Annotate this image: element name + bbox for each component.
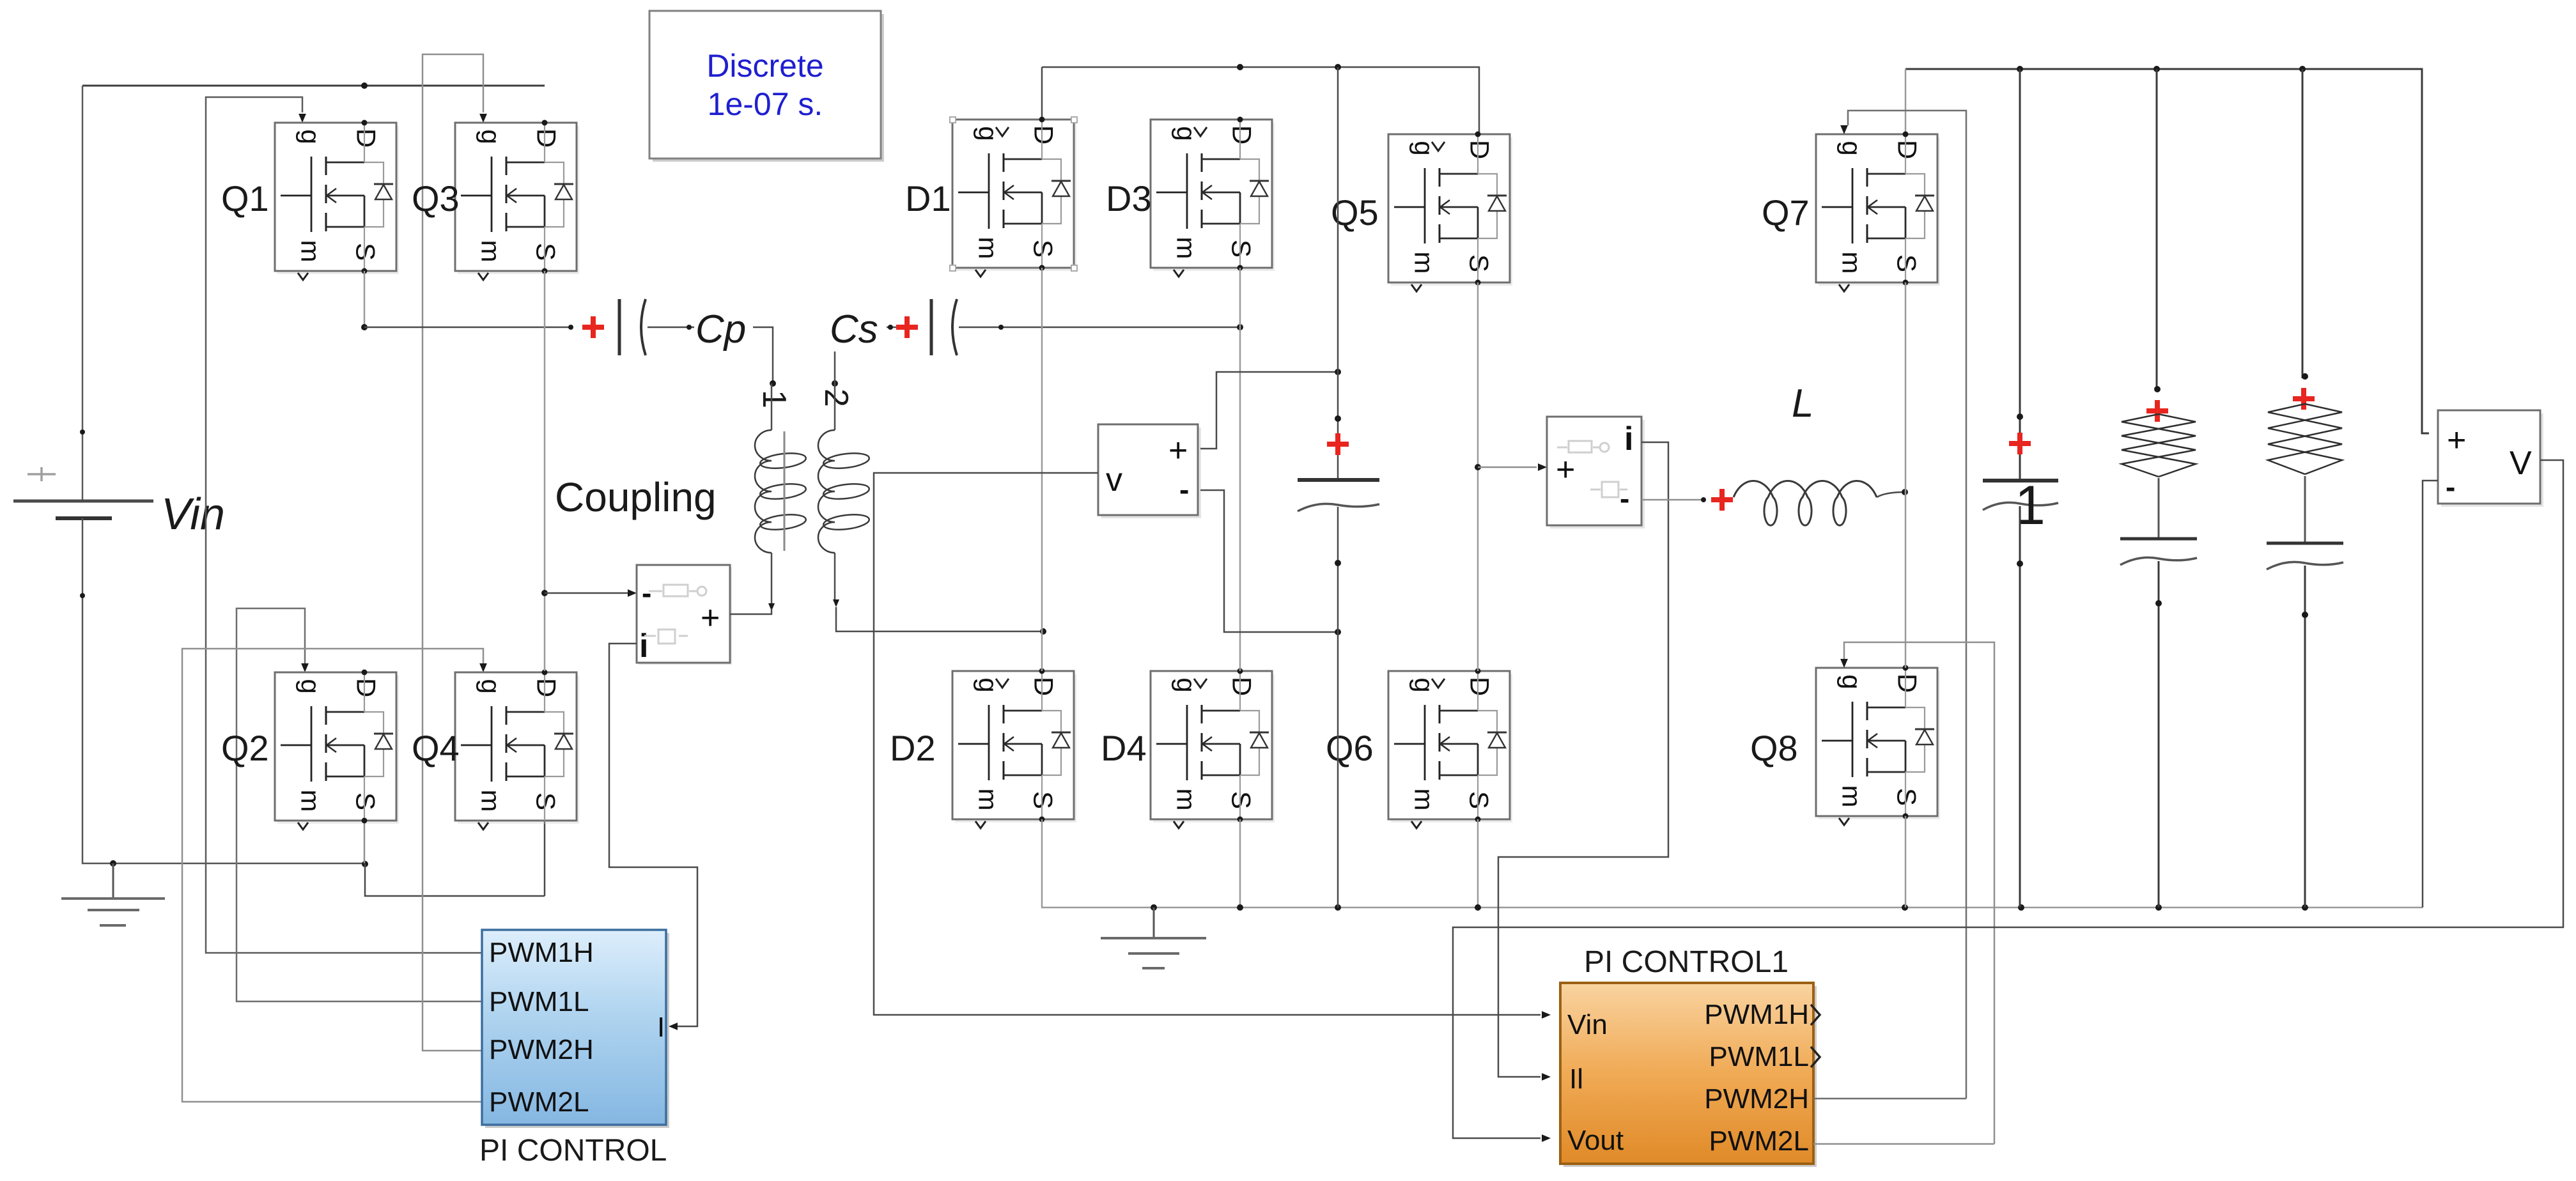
inductor L bbox=[1711, 489, 1733, 511]
svg-text:m: m bbox=[1172, 237, 1202, 259]
svg-text:PWM2L: PWM2L bbox=[1709, 1125, 1809, 1157]
svg-text:g: g bbox=[1409, 677, 1439, 692]
svg-text:i: i bbox=[639, 628, 648, 665]
svg-text:Q8: Q8 bbox=[1750, 728, 1798, 768]
port PWM1L unconnected bbox=[1811, 1047, 1820, 1067]
svg-text:Q4: Q4 bbox=[412, 728, 460, 768]
svg-text:+: + bbox=[1168, 432, 1188, 469]
svg-text:S: S bbox=[1227, 240, 1257, 258]
svg-text:D: D bbox=[352, 678, 382, 697]
node ground1 junction bbox=[110, 860, 116, 867]
svg-text:g: g bbox=[1837, 141, 1867, 155]
svg-text:S: S bbox=[1464, 791, 1494, 809]
svg-text:g: g bbox=[296, 129, 326, 144]
wire PWM1H to Q1 gate bbox=[206, 97, 482, 953]
wire Q1 source to node A bbox=[364, 271, 366, 327]
svg-text:S: S bbox=[531, 792, 561, 810]
wire PWM1L to Q2 gate bbox=[237, 608, 482, 1001]
transistor Q3 bbox=[455, 123, 579, 280]
node D3 drain junction bbox=[1237, 64, 1243, 70]
wire node B to i2 minus bbox=[545, 592, 628, 594]
svg-text:v: v bbox=[1106, 461, 1122, 498]
svg-text:Coupling: Coupling bbox=[555, 474, 717, 520]
svg-text:S: S bbox=[531, 243, 561, 261]
svg-text:D: D bbox=[1029, 677, 1059, 696]
svg-text:Vin: Vin bbox=[1567, 1009, 1608, 1040]
svg-text:g: g bbox=[1409, 141, 1439, 155]
transistor D1 bbox=[950, 117, 1077, 277]
svg-text:m: m bbox=[1837, 785, 1867, 808]
wire C1 column bottom bbox=[1337, 507, 1339, 907]
svg-text:1e-07 s.: 1e-07 s. bbox=[708, 86, 823, 122]
wire PWM2L to Q8 gate bbox=[1844, 642, 1994, 1144]
capacitor Cs series branch bbox=[896, 316, 918, 338]
current measurement i2 bbox=[637, 565, 732, 665]
node Q1 drain junction bbox=[361, 82, 368, 89]
svg-text:D: D bbox=[1465, 140, 1495, 159]
wire terminal2 to Cs bbox=[835, 327, 907, 383]
wire Q8 source to rail bbox=[1905, 816, 1907, 907]
wire Q5 Q6 midpoint to i1 plus bbox=[1478, 467, 1537, 468]
svg-text:Il: Il bbox=[1569, 1063, 1583, 1095]
svg-text:L: L bbox=[1792, 382, 1813, 426]
transistor D3 bbox=[1151, 120, 1275, 277]
svg-text:S: S bbox=[351, 243, 381, 261]
wire node B Q3 source to Q4 drain bbox=[544, 271, 546, 671]
svg-text:+: + bbox=[701, 599, 720, 637]
svg-text:+: + bbox=[1556, 451, 1575, 488]
svg-text:D: D bbox=[1465, 677, 1495, 696]
svg-text:D2: D2 bbox=[890, 728, 936, 768]
transistor Q5 bbox=[1388, 134, 1512, 291]
capacitor Cp series branch bbox=[582, 316, 604, 338]
svg-text:I: I bbox=[657, 1012, 665, 1043]
node R1 top bbox=[2153, 66, 2160, 72]
svg-text:-: - bbox=[1620, 482, 1629, 515]
wire i1 minus to L bbox=[1641, 499, 1703, 501]
svg-text:Vin: Vin bbox=[161, 489, 225, 539]
svg-text:m: m bbox=[296, 790, 326, 812]
svg-text:PWM2L: PWM2L bbox=[489, 1086, 589, 1118]
wire secondary top rail bbox=[1042, 67, 1479, 134]
svg-text:-: - bbox=[2446, 470, 2455, 504]
node cap right top bbox=[2017, 66, 2023, 72]
svg-text:m: m bbox=[1837, 252, 1867, 274]
resistor R load branch 2 bbox=[2302, 69, 2304, 378]
node C1 top junction bbox=[1335, 64, 1341, 70]
wire node A to Cp bbox=[364, 327, 571, 328]
svg-text:g: g bbox=[974, 126, 1004, 141]
svg-text:m: m bbox=[1409, 252, 1439, 274]
svg-text:g: g bbox=[1172, 126, 1202, 141]
capacitor C1 output bbox=[1335, 415, 1341, 422]
svg-text:PWM1H: PWM1H bbox=[1704, 999, 1809, 1030]
svg-text:-: - bbox=[642, 576, 651, 610]
node Q2 source junction bbox=[362, 861, 368, 867]
wire primary top rail bbox=[82, 85, 545, 87]
ground secondary bbox=[1153, 907, 1155, 938]
subsystem PI CONTROL1 bbox=[1560, 983, 1817, 1167]
wire i2 signal to PI CONTROL I input bbox=[609, 644, 697, 1026]
transformer core bbox=[784, 431, 786, 551]
svg-text:S: S bbox=[1028, 791, 1059, 809]
resistor R load branch 1 bbox=[2156, 69, 2158, 391]
wire battery positive bbox=[82, 86, 84, 501]
svg-text:D: D bbox=[1029, 125, 1059, 144]
svg-text:Cs: Cs bbox=[830, 307, 878, 351]
wire C1 column top bbox=[1337, 67, 1339, 480]
svg-text:S: S bbox=[1892, 254, 1922, 272]
svg-text:PWM1L: PWM1L bbox=[489, 986, 589, 1017]
subsystem PI CONTROL bbox=[482, 930, 669, 1128]
svg-text:S: S bbox=[1892, 788, 1922, 806]
current measurement i1 bbox=[1547, 417, 1645, 529]
svg-text:g: g bbox=[974, 677, 1004, 692]
svg-text:S: S bbox=[1028, 240, 1059, 258]
svg-text:PWM2H: PWM2H bbox=[1704, 1083, 1809, 1115]
transistor D4 bbox=[1151, 671, 1275, 828]
wire v1 minus to C1 bottom bbox=[1200, 490, 1338, 632]
svg-text:PI CONTROL: PI CONTROL bbox=[479, 1134, 667, 1168]
svg-text:D: D bbox=[1227, 125, 1257, 144]
svg-text:V: V bbox=[2510, 445, 2532, 482]
svg-text:g: g bbox=[476, 679, 506, 693]
ground bbox=[113, 863, 114, 899]
wire i2 plus to winding1 bottom bbox=[730, 608, 772, 614]
svg-text:-: - bbox=[1179, 473, 1189, 506]
svg-text:D: D bbox=[352, 128, 382, 148]
node R2 top bbox=[2299, 66, 2306, 72]
wire cap1 column bbox=[2019, 69, 2021, 481]
block Discrete solver bbox=[649, 11, 884, 162]
svg-text:+: + bbox=[2447, 422, 2466, 459]
svg-text:Cp: Cp bbox=[695, 307, 746, 351]
voltage measurement v2 bbox=[2438, 410, 2543, 507]
svg-text:PWM1L: PWM1L bbox=[1709, 1041, 1809, 1072]
wire Q5 source to Q6 drain bbox=[1477, 282, 1479, 671]
node Q5 Q6 midpoint to i1 bbox=[1475, 464, 1481, 470]
node B junction bbox=[541, 590, 548, 596]
node A bridge midpoint left bbox=[361, 324, 368, 330]
wire PWM2H to Q7 gate bbox=[1848, 111, 1966, 1099]
svg-text:m: m bbox=[476, 790, 506, 812]
svg-text:g: g bbox=[476, 129, 506, 144]
svg-text:S: S bbox=[1464, 254, 1494, 272]
svg-text:g: g bbox=[296, 679, 326, 693]
transistor Q7 bbox=[1816, 134, 1940, 291]
svg-text:PI CONTROL1: PI CONTROL1 bbox=[1584, 945, 1788, 979]
wire output top rail bbox=[1905, 69, 2429, 433]
svg-text:i: i bbox=[1624, 421, 1633, 458]
svg-text:2: 2 bbox=[818, 389, 855, 407]
svg-text:D: D bbox=[1893, 674, 1923, 693]
svg-text:Q2: Q2 bbox=[221, 728, 269, 768]
wire Q2 source to rail bbox=[364, 821, 366, 863]
svg-text:m: m bbox=[974, 789, 1004, 811]
svg-text:g: g bbox=[1837, 674, 1867, 689]
voltage measurement v1 bbox=[1098, 424, 1201, 518]
wire D1 source to D2 drain bbox=[1041, 268, 1043, 671]
wire D3 source to D4 drain bbox=[1239, 268, 1241, 671]
svg-text:m: m bbox=[1409, 789, 1439, 811]
wire PWM2H to Q3 gate bbox=[423, 54, 483, 1051]
capacitor 1 battery branch bbox=[2017, 413, 2023, 420]
svg-text:m: m bbox=[296, 240, 326, 263]
svg-text:D4: D4 bbox=[1101, 728, 1147, 768]
wire Q7 source to Q8 drain bbox=[1905, 282, 1907, 668]
svg-text:S: S bbox=[1227, 791, 1257, 809]
wire L to Q7 Q8 midpoint bbox=[1877, 492, 1905, 497]
wire secondary ground rail bbox=[1042, 819, 2423, 907]
wire v1 plus to C1 top bbox=[1200, 372, 1338, 449]
wire v2 signal to PI CONTROL1 Vout bbox=[1453, 460, 2563, 1138]
svg-text:m: m bbox=[974, 237, 1004, 259]
svg-text:S: S bbox=[351, 792, 381, 810]
svg-text:D: D bbox=[532, 678, 562, 697]
wire v1 signal to PI CONTROL1 Vin bbox=[874, 473, 1540, 1015]
transistor Q8 bbox=[1816, 668, 1940, 825]
wire Q4 source return bbox=[365, 821, 545, 896]
wire i1 signal to PI CONTROL1 Il bbox=[1498, 442, 1668, 1077]
svg-text:Discrete: Discrete bbox=[706, 48, 823, 84]
port PWM1H unconnected bbox=[1811, 1005, 1820, 1025]
svg-text:g: g bbox=[1172, 677, 1202, 692]
wire PWM2L output bbox=[1813, 1143, 1994, 1145]
transistor Q6 bbox=[1388, 671, 1512, 828]
wire v2 minus to ground rail bbox=[2423, 481, 2438, 907]
svg-text:PWM1H: PWM1H bbox=[489, 937, 594, 968]
transistor Q1 bbox=[275, 123, 399, 280]
svg-text:Q3: Q3 bbox=[412, 178, 460, 219]
svg-text:D: D bbox=[1893, 140, 1923, 159]
wire PWM2L to Q4 gate bbox=[182, 649, 483, 1102]
svg-text:Q7: Q7 bbox=[1762, 192, 1810, 233]
svg-text:Q6: Q6 bbox=[1326, 728, 1374, 768]
transistor Q4 bbox=[455, 672, 579, 830]
battery Vin DC source bbox=[27, 467, 56, 481]
wire Cs to D3 D4 midpoint bbox=[959, 327, 1240, 328]
svg-text:D: D bbox=[1227, 677, 1257, 696]
wire battery negative to bridge bottom bbox=[82, 518, 365, 863]
svg-text:Vout: Vout bbox=[1567, 1125, 1624, 1156]
transistor D2 bbox=[952, 671, 1076, 828]
wire secondary return to D1 D2 midpoint bbox=[836, 607, 1043, 631]
svg-text:PWM2H: PWM2H bbox=[489, 1034, 594, 1065]
svg-text:D: D bbox=[532, 128, 562, 148]
svg-text:D3: D3 bbox=[1106, 178, 1152, 219]
wire PWM2H output bbox=[1813, 1098, 1966, 1100]
svg-text:1: 1 bbox=[756, 390, 793, 408]
svg-text:D1: D1 bbox=[905, 178, 951, 219]
transistor Q2 bbox=[275, 672, 399, 830]
svg-text:m: m bbox=[476, 240, 506, 263]
svg-text:Q1: Q1 bbox=[221, 178, 269, 219]
svg-text:m: m bbox=[1172, 789, 1202, 811]
